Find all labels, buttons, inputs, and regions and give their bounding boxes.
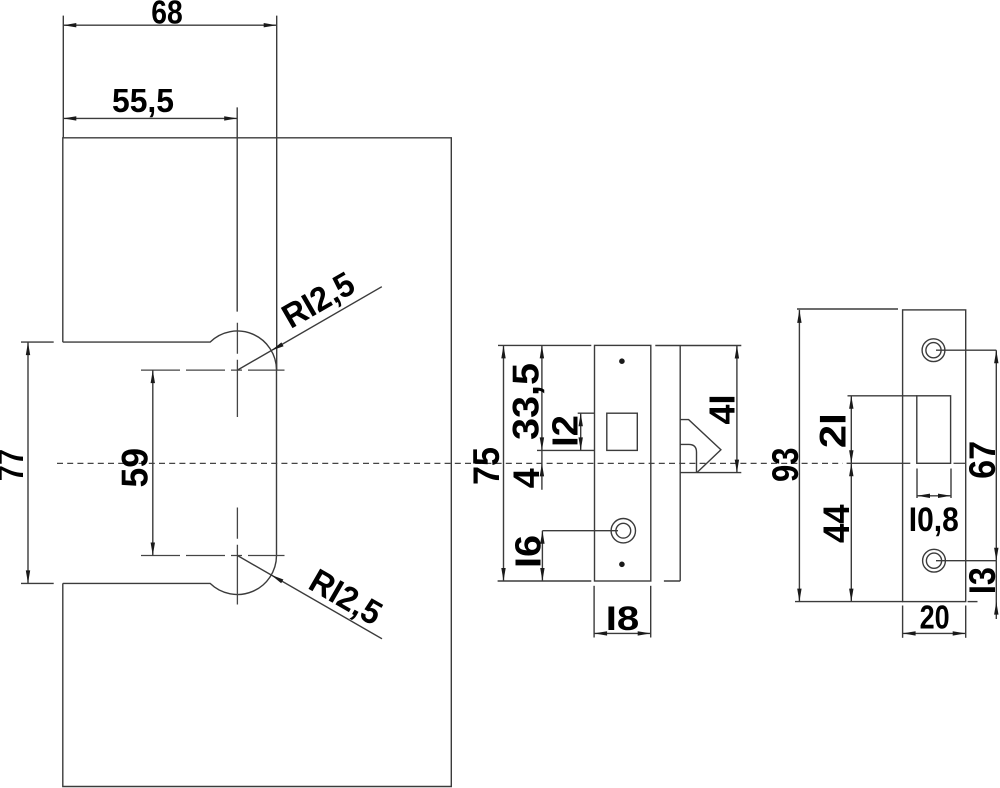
svg-text:RI2,5: RI2,5 (303, 562, 389, 633)
lock case bottom edge (664, 580, 680, 582)
lock case front vertical line (679, 346, 681, 582)
faceplate front view (595, 345, 651, 581)
slot vertical centerline bottom (236, 508, 238, 605)
svg-text:67: 67 (962, 441, 1000, 479)
svg-text:2I: 2I (813, 413, 854, 448)
dimension 21 (848, 395, 917, 397)
dimension 13 (968, 601, 978, 603)
spindle square hole (607, 413, 638, 450)
dimension 59 (152, 370, 154, 555)
main horizontal centerline (57, 462, 843, 464)
dimension 67 leader lines (936, 349, 996, 351)
svg-text:75: 75 (466, 447, 507, 485)
svg-text:I0,8: I0,8 (909, 501, 959, 539)
strike top screw hole inner (926, 343, 941, 358)
svg-text:55,5: 55,5 (112, 82, 174, 119)
dimension 33,5 and 4 (537, 449, 594, 451)
svg-text:44: 44 (816, 504, 857, 543)
latch bolt inner contour (680, 444, 696, 472)
strike latch hole (917, 396, 951, 464)
dimension 55,5 (236, 107, 238, 311)
strike plate outline (903, 310, 966, 602)
top arc horizontal center mark (141, 369, 285, 371)
centerline dash right of strike hole (954, 462, 966, 464)
svg-text:4I: 4I (702, 395, 743, 425)
dimension 75 (498, 344, 591, 346)
latch bolt bottom edge and extension (680, 472, 741, 474)
svg-text:I2: I2 (545, 415, 586, 447)
dimension 16 with leader to follower (542, 530, 618, 532)
slot vertical centerline top (236, 323, 238, 417)
lock case side view top edge (655, 345, 741, 347)
latch bolt outline (680, 420, 721, 473)
radius leader R12,5 bottom (237, 556, 382, 639)
dimension 68 (62, 16, 64, 138)
dimension 77 (21, 341, 54, 343)
svg-text:68: 68 (151, 0, 183, 30)
dimension 10,8 (916, 469, 918, 499)
dimension 18 (593, 586, 595, 638)
svg-text:I6: I6 (508, 535, 549, 568)
dimension 41 (736, 346, 738, 473)
faceplate top screw dot (619, 358, 625, 364)
strike bottom screw hole inner (926, 553, 941, 568)
svg-text:RI2,5: RI2,5 (276, 265, 362, 336)
svg-text:I8: I8 (606, 600, 640, 638)
radius leader R12,5 top (237, 287, 381, 370)
dimension 12 (578, 412, 594, 414)
faceplate bottom screw dot (619, 562, 625, 568)
svg-text:93: 93 (765, 447, 806, 482)
svg-text:77: 77 (0, 449, 31, 481)
svg-text:33,5: 33,5 (506, 363, 547, 440)
strike top screw hole outer (922, 339, 945, 362)
strike bottom screw hole outer (923, 549, 946, 572)
lock mortise slot outline (63, 331, 277, 595)
follower circle inner (616, 523, 631, 538)
svg-text:4: 4 (506, 468, 547, 488)
svg-text:20: 20 (920, 599, 950, 636)
svg-text:I3: I3 (962, 567, 1000, 594)
svg-text:59: 59 (115, 448, 156, 488)
centerline solid extension into strike hole (847, 462, 911, 464)
follower circle outer (611, 519, 635, 543)
door panel outline (63, 138, 452, 787)
bottom arc horizontal center mark (141, 555, 285, 557)
dimension 67 (995, 350, 997, 561)
dimension 20 (902, 606, 904, 638)
dimension 93 (797, 308, 898, 310)
dimension 44 (850, 463, 852, 601)
